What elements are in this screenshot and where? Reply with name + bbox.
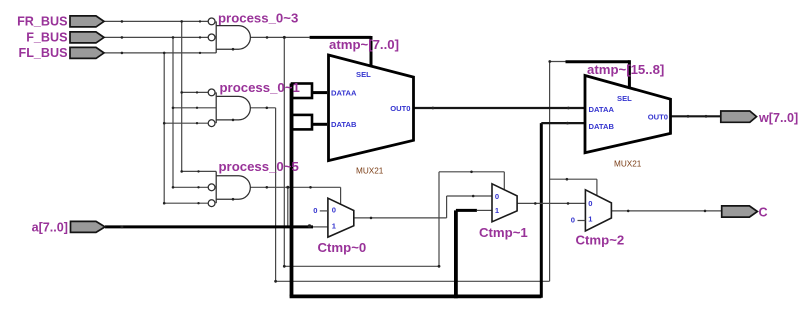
wire process_0~3 output to MUX21 U1 SEL bundle <box>250 36 310 38</box>
pin labels mux21 U2 <box>589 94 669 131</box>
and-gate process_0~3 <box>216 21 250 53</box>
connector box U1 DATAA <box>292 84 312 99</box>
mux Ctmp~2 body <box>585 190 611 231</box>
wire vB F_BUS vertical branch to process_0~1 and process_0~5 <box>173 37 216 187</box>
wire vC FL_BUS vertical branch to process_0~1 and process_0~5 <box>164 53 208 203</box>
svg-text:atmp~[15..8]: atmp~[15..8] <box>587 62 664 77</box>
wire process_0~5 output to Ctmp~0 SEL <box>250 187 341 205</box>
and-gate process_0~5 <box>216 171 250 203</box>
svg-text:DATAB: DATAB <box>331 120 357 129</box>
wire bus vG thick vertical from MUX21 U1 data boxes to bottom bus <box>290 84 294 297</box>
inverter bubble process_0~5 pin2 <box>208 184 215 191</box>
svg-text:a[7..0]: a[7..0] <box>32 221 68 235</box>
input port a[7..0] <box>71 221 106 232</box>
svg-text:DATAA: DATAA <box>331 89 357 98</box>
svg-text:SEL: SEL <box>617 94 632 103</box>
svg-text:OUT0: OUT0 <box>390 104 410 113</box>
svg-text:MUX21: MUX21 <box>614 159 642 168</box>
input port FR_BUS <box>70 16 104 27</box>
mux21 U1 body <box>329 55 414 161</box>
stub U1 DATAB <box>312 123 327 126</box>
wire MUX21 U1 OUT0 to MUX21 U2 DATAA <box>414 107 586 109</box>
constant 0 stub Ctmp~0 input0 <box>320 210 328 212</box>
wire MUX21 U2 OUT0 to port w[7..0] <box>671 115 721 117</box>
svg-text:atmp~[7..0]: atmp~[7..0] <box>329 37 399 52</box>
input port FL_BUS <box>70 47 104 58</box>
svg-text:0: 0 <box>495 192 499 201</box>
svg-text:OUT0: OUT0 <box>648 113 668 122</box>
wire Ctmp~0 output to Ctmp~1 input0 <box>354 196 492 218</box>
wire vA FR_BUS vertical branch to process_0~1 and process_0~5 <box>182 21 217 171</box>
wire vF tap from process_0~5 output down to bus a[7..0] <box>287 187 289 227</box>
svg-text:0: 0 <box>332 206 336 215</box>
svg-text:0: 0 <box>571 216 575 225</box>
wire process_0~3 output via vE to Ctmp~1 SEL <box>284 37 504 266</box>
and-gate process_0~1 <box>216 92 250 123</box>
output port w[7..0] <box>721 111 757 122</box>
mux Ctmp~1 body <box>492 184 517 222</box>
output port C <box>722 206 758 217</box>
inverter bubble process_0~1 pin3 <box>208 120 215 127</box>
svg-text:F_BUS: F_BUS <box>26 31 67 45</box>
svg-text:process_0~3: process_0~3 <box>218 10 298 25</box>
wire bus a[7..0] thick horizontal <box>105 225 328 228</box>
svg-text:process_0~5: process_0~5 <box>219 159 299 174</box>
svg-text:process_0~1: process_0~1 <box>220 80 300 95</box>
svg-text:DATAA: DATAA <box>589 105 615 114</box>
wire FR_BUS from port to gate process_0~3 pin1 <box>104 20 208 22</box>
wire net atmp~[7..0] thick SEL segment of MUX21 U1 <box>310 36 371 67</box>
wire bus bottom thick horizontal <box>290 294 542 298</box>
svg-text:FL_BUS: FL_BUS <box>19 46 68 60</box>
svg-text:0: 0 <box>588 199 592 208</box>
svg-text:FR_BUS: FR_BUS <box>17 14 67 28</box>
inverter bubble process_0~3 pin1 <box>208 18 215 25</box>
wire FL_BUS from port to gate process_0~3 pin3 <box>104 52 216 54</box>
inverter bubble process_0~1 pin1 <box>208 89 215 96</box>
connector box U1 DATAB <box>292 115 312 129</box>
svg-text:SEL: SEL <box>356 70 371 79</box>
pin digits Ctmp~2 <box>571 199 594 225</box>
pin labels mux21 U1 <box>331 70 411 129</box>
wire F_BUS from port to gate process_0~3 pin2 <box>104 36 208 38</box>
inverter bubble process_0~5 pin3 <box>208 200 215 207</box>
svg-text:DATAB: DATAB <box>589 122 615 131</box>
svg-text:0: 0 <box>313 206 317 215</box>
svg-text:Ctmp~0: Ctmp~0 <box>318 240 367 255</box>
svg-text:C: C <box>759 205 768 219</box>
svg-text:Ctmp~2: Ctmp~2 <box>576 233 625 248</box>
constant 0 stub Ctmp~2 input1 <box>578 220 586 222</box>
svg-text:w[7..0]: w[7..0] <box>758 111 798 125</box>
wire bus thick vertical to MUX21 U2 DATAB <box>541 123 585 298</box>
input port F_BUS <box>70 32 104 43</box>
wire Ctmp~2 output to port C <box>611 210 721 212</box>
wire branch to Ctmp~2 SEL <box>550 179 597 196</box>
wire bus vH thick vertical to Ctmp~1 input1 <box>456 210 492 298</box>
wire process_0~1 output via vD to MUX21 U2 SEL and Ctmp~2 SEL <box>250 62 566 282</box>
pin digits Ctmp~0 <box>313 206 337 231</box>
svg-text:Ctmp~1: Ctmp~1 <box>479 225 528 240</box>
wire Ctmp~1 output to Ctmp~2 input0 <box>517 202 585 204</box>
wire net atmp~[15..8] thick SEL segment of MUX21 U2 <box>566 60 630 87</box>
mux Ctmp~0 body <box>328 198 354 237</box>
svg-text:MUX21: MUX21 <box>356 167 384 176</box>
pin digits Ctmp~1 <box>495 192 500 215</box>
inverter bubble process_0~3 pin2 <box>208 34 215 41</box>
stub U1 DATAA <box>312 91 327 94</box>
mux21 U2 body <box>585 76 671 153</box>
